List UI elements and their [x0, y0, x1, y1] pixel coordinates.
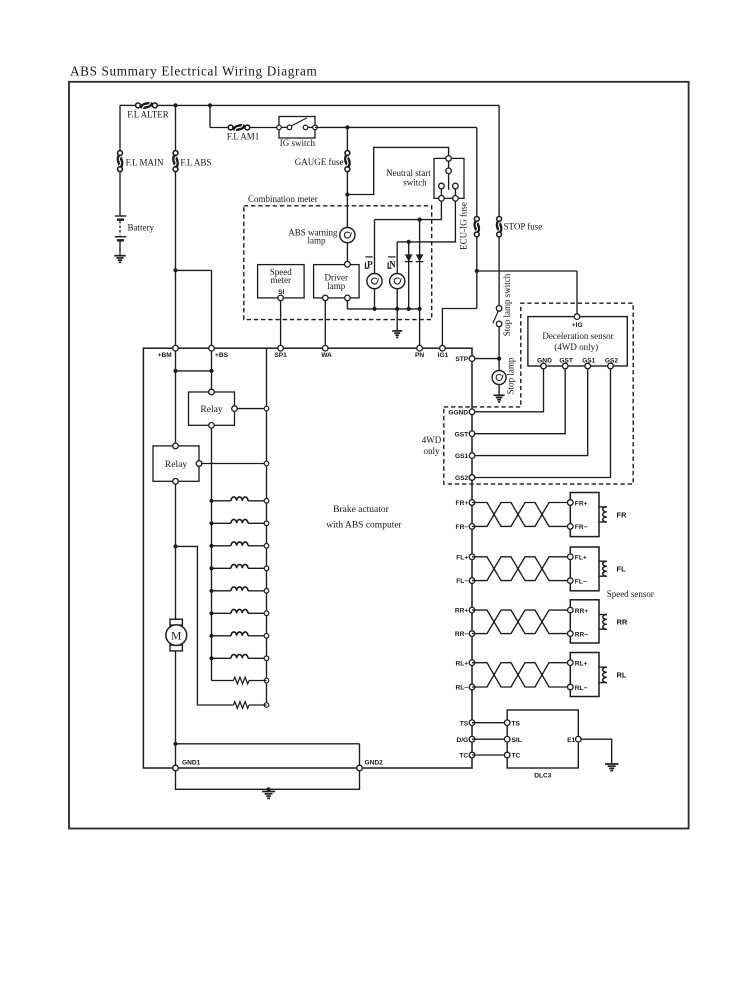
svg-text:lamp: lamp [327, 281, 345, 291]
svg-text:GS1: GS1 [455, 453, 469, 460]
svg-text:+BM: +BM [158, 352, 173, 359]
svg-text:+IG: +IG [572, 322, 583, 329]
svg-text:PN: PN [415, 352, 424, 359]
svg-text:RL+: RL+ [575, 661, 588, 668]
svg-text:F.L ABS: F.L ABS [180, 157, 211, 167]
svg-text:DLC3: DLC3 [534, 773, 552, 780]
svg-text:GST: GST [455, 431, 469, 438]
svg-text:RR+: RR+ [575, 608, 589, 615]
svg-text:Relay: Relay [200, 405, 222, 415]
svg-text:only: only [423, 446, 440, 456]
svg-text:STOP fuse: STOP fuse [504, 222, 543, 232]
svg-text:P: P [367, 259, 373, 269]
svg-text:FR+: FR+ [456, 500, 469, 507]
svg-text:FR−: FR− [575, 524, 588, 531]
svg-text:meter: meter [271, 275, 292, 285]
svg-text:FR−: FR− [456, 524, 469, 531]
svg-text:Relay: Relay [165, 460, 187, 470]
svg-text:FL−: FL− [456, 578, 468, 585]
svg-text:GND2: GND2 [365, 759, 384, 766]
svg-text:Speed sensor: Speed sensor [607, 589, 654, 599]
svg-text:Combination meter: Combination meter [248, 194, 318, 204]
svg-text:RL: RL [617, 671, 627, 680]
svg-text:SIL: SIL [512, 737, 522, 744]
svg-text:TS: TS [512, 720, 521, 727]
svg-text:IG1: IG1 [438, 352, 449, 359]
svg-text:Stop lamp switch: Stop lamp switch [502, 273, 512, 336]
svg-text:N: N [389, 259, 396, 269]
svg-text:switch: switch [403, 177, 427, 187]
svg-text:FR: FR [617, 510, 628, 519]
svg-text:M: M [171, 631, 181, 643]
svg-text:STP: STP [455, 356, 468, 363]
svg-text:FL−: FL− [575, 578, 587, 585]
svg-text:WA: WA [321, 352, 332, 359]
svg-text:+BS: +BS [215, 352, 229, 359]
svg-text:RL+: RL+ [456, 660, 469, 667]
svg-text:FR+: FR+ [575, 500, 588, 507]
svg-text:E1: E1 [567, 737, 575, 744]
svg-text:ABS Summary Electrical Wiring: ABS Summary Electrical Wiring Diagram [70, 64, 318, 79]
svg-text:RL−: RL− [575, 685, 588, 692]
svg-text:RR+: RR+ [455, 608, 469, 615]
svg-text:TC: TC [459, 753, 468, 760]
svg-text:F.L MAIN: F.L MAIN [126, 157, 164, 167]
svg-text:F.L AM1: F.L AM1 [227, 132, 259, 142]
svg-text:RR−: RR− [575, 631, 589, 638]
svg-text:FL: FL [617, 565, 627, 574]
svg-text:F.L ALTER: F.L ALTER [127, 109, 169, 119]
svg-text:ECU-IG fuse: ECU-IG fuse [458, 202, 468, 250]
svg-text:Battery: Battery [128, 222, 155, 232]
svg-text:GGND: GGND [448, 409, 468, 416]
svg-text:D/G: D/G [456, 737, 468, 744]
svg-text:(4WD only): (4WD only) [554, 342, 598, 352]
svg-text:FL+: FL+ [456, 554, 468, 561]
svg-text:Deceleration sensor: Deceleration sensor [542, 331, 613, 341]
svg-text:FL+: FL+ [575, 555, 587, 562]
svg-text:SP1: SP1 [274, 352, 287, 359]
svg-text:with ABS computer: with ABS computer [326, 520, 402, 530]
svg-text:Stop lamp: Stop lamp [506, 357, 516, 394]
svg-text:RR−: RR− [455, 631, 469, 638]
svg-text:RR: RR [617, 618, 628, 627]
svg-text:lamp: lamp [308, 236, 326, 246]
svg-text:GS2: GS2 [455, 475, 469, 482]
svg-text:GAUGE fuse: GAUGE fuse [295, 157, 344, 167]
svg-text:TS: TS [460, 720, 469, 727]
svg-text:Brake actuator: Brake actuator [333, 505, 389, 515]
svg-text:GND1: GND1 [182, 759, 201, 766]
svg-text:4WD: 4WD [422, 435, 442, 445]
svg-text:RL−: RL− [456, 685, 469, 692]
svg-text:IG switch: IG switch [280, 138, 316, 148]
svg-text:TC: TC [512, 753, 521, 760]
